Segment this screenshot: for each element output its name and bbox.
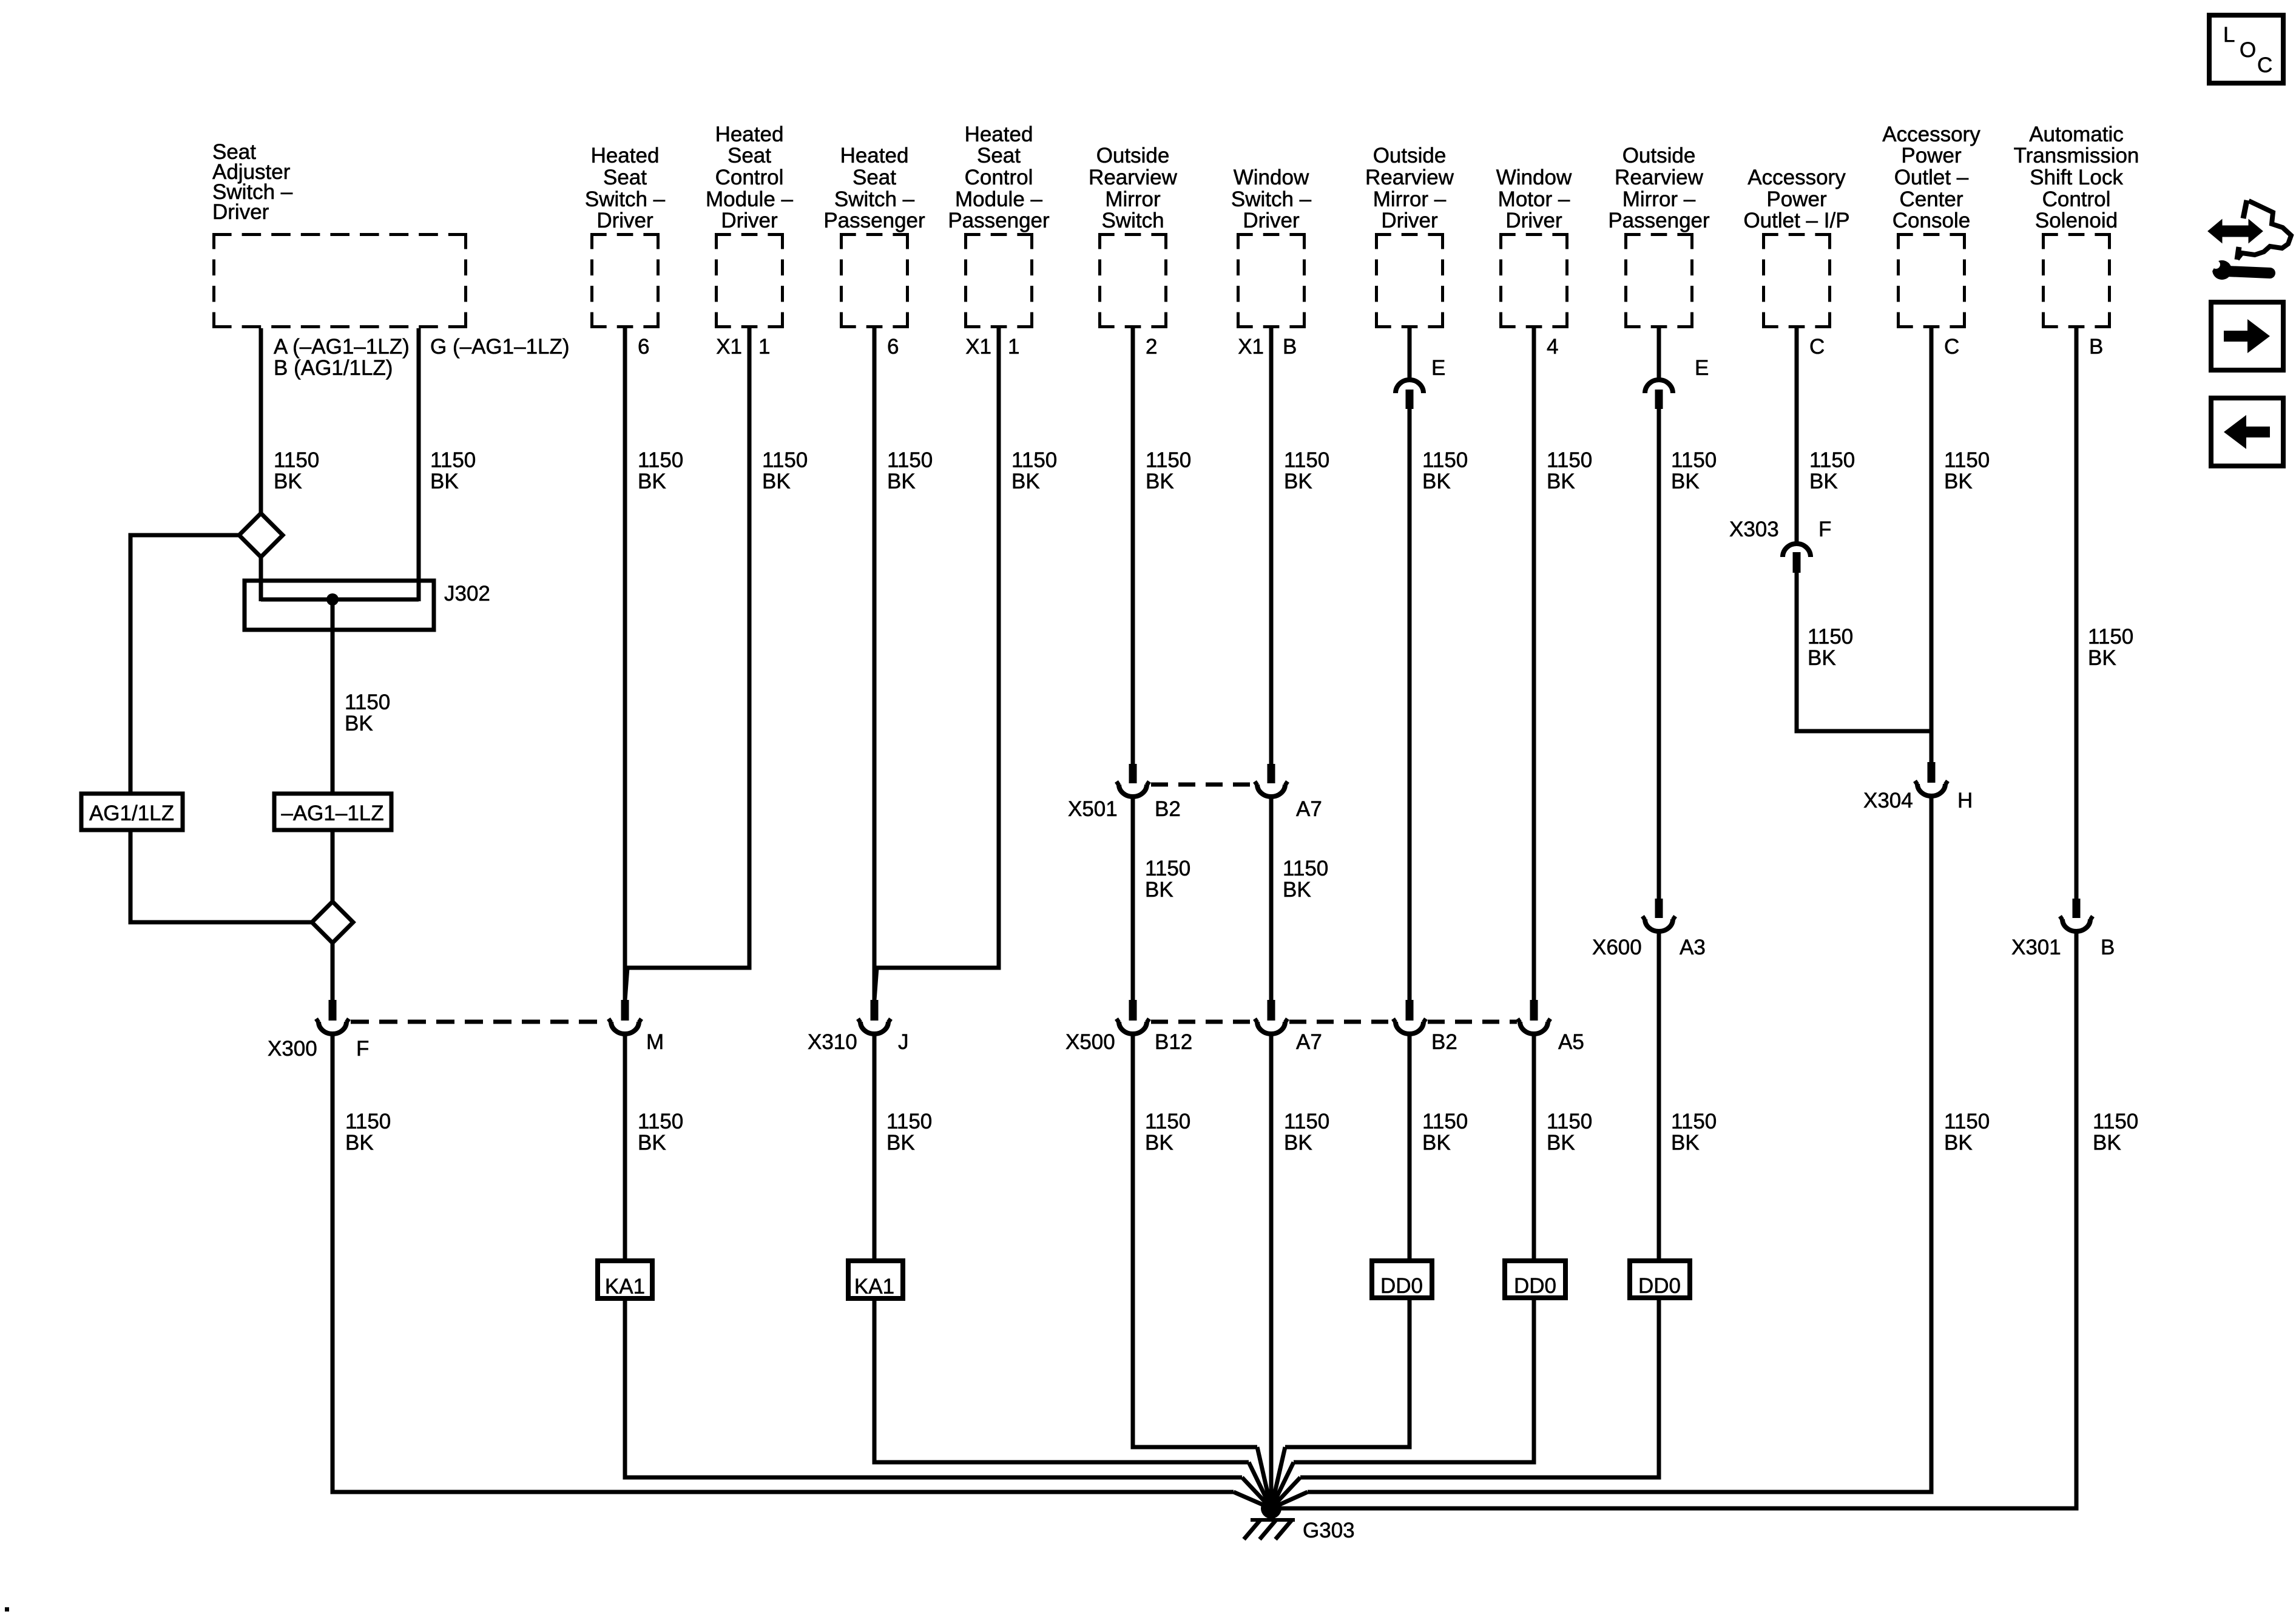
wire: KA1 down to ground bus level 3 xyxy=(625,1298,1242,1477)
svg-text:X303: X303 xyxy=(1729,518,1779,541)
splice pack J302 box xyxy=(245,581,434,630)
svg-text:BK: BK xyxy=(1011,470,1040,493)
connector X500 pin A7 (stub and cup) xyxy=(1268,1000,1275,1021)
svg-text:Outlet –: Outlet – xyxy=(1894,166,1969,189)
svg-text:Solenoid: Solenoid xyxy=(2035,209,2118,232)
wire: left branch from upper diamond to AG1/1LZ box xyxy=(130,535,239,794)
svg-text:Transmission: Transmission xyxy=(2014,144,2139,167)
svg-text:F: F xyxy=(1818,518,1831,541)
svg-text:BK: BK xyxy=(1547,470,1575,493)
eyelet terminal E (mirror passenger) xyxy=(1645,380,1673,393)
wire: pin G of seat adjuster switch down into J302 xyxy=(417,328,421,601)
label: Heated Seat Control Module - Driver title xyxy=(706,123,794,232)
svg-text:H: H xyxy=(1957,789,1973,812)
wire: X500 B12 down to ground bus level 1 xyxy=(1133,1033,1257,1447)
page artifact dot bottom left xyxy=(5,1607,9,1612)
svg-text:BK: BK xyxy=(638,470,666,493)
svg-text:1150: 1150 xyxy=(1944,1110,1990,1133)
wire label 1150 BK (mirror switch X501-X500) xyxy=(1145,857,1190,902)
back arrow box xyxy=(2211,398,2283,466)
svg-text:Control: Control xyxy=(965,166,1033,189)
svg-text:1150: 1150 xyxy=(1422,1110,1468,1133)
svg-text:Switch –: Switch – xyxy=(834,187,915,211)
wire: into G303 node (X301 branch) xyxy=(1271,1507,1295,1511)
junction dot inside J302 xyxy=(326,593,339,606)
svg-text:Control: Control xyxy=(715,166,784,189)
svg-text:Control: Control xyxy=(2042,187,2111,211)
svg-text:BK: BK xyxy=(345,712,373,735)
wire: Window Motor Driver pin 4 down to X500 A5 xyxy=(1532,328,1536,1002)
wire: X501 A7 down to X500 A7 xyxy=(1269,796,1274,1002)
svg-text:A3: A3 xyxy=(1680,936,1706,959)
wire label 1150 BK (A7 lower) xyxy=(1284,1110,1329,1155)
dashed connector tie line X501 B2 to A7 xyxy=(1151,783,1254,787)
svg-text:Heated: Heated xyxy=(965,123,1033,146)
svg-text:Seat: Seat xyxy=(853,166,896,189)
wire: M down to fuse KA1 xyxy=(623,1033,627,1261)
splice label DD0 (window motor) xyxy=(1505,1261,1565,1298)
svg-text:Power: Power xyxy=(1766,187,1827,211)
svg-text:X501: X501 xyxy=(1068,797,1118,821)
svg-text:X300: X300 xyxy=(268,1037,317,1061)
ground node G303 junction blob xyxy=(1261,1498,1281,1519)
svg-text:B2: B2 xyxy=(1431,1030,1457,1054)
svg-text:F: F xyxy=(356,1037,369,1061)
svg-text:Mirror –: Mirror – xyxy=(1622,187,1696,211)
svg-text:B2: B2 xyxy=(1155,797,1181,821)
svg-text:A7: A7 xyxy=(1296,797,1322,821)
svg-text:Passenger: Passenger xyxy=(823,209,925,232)
wire: DD0 down to ground bus level 2 (right side) xyxy=(1294,1298,1534,1462)
svg-text:B: B xyxy=(1283,335,1297,359)
svg-text:1: 1 xyxy=(1008,335,1019,359)
svg-text:X310: X310 xyxy=(808,1030,857,1054)
svg-text:B12: B12 xyxy=(1155,1030,1192,1054)
component box: Heated Seat Switch - Driver xyxy=(590,233,660,328)
label: Heated Seat Control Module - Passenger title xyxy=(948,123,1050,232)
svg-text:Switch: Switch xyxy=(1101,209,1164,232)
svg-text:1150: 1150 xyxy=(1284,1110,1329,1133)
svg-text:Console: Console xyxy=(1893,209,1970,232)
svg-text:BK: BK xyxy=(2088,646,2116,670)
svg-text:Switch –: Switch – xyxy=(1231,187,1312,211)
ground symbol hatch strokes xyxy=(1244,1519,1261,1539)
svg-text:Power: Power xyxy=(1901,144,1962,167)
svg-text:1150: 1150 xyxy=(1671,448,1717,472)
svg-text:1150: 1150 xyxy=(2088,625,2133,649)
svg-text:1150: 1150 xyxy=(345,1110,391,1133)
svg-text:1150: 1150 xyxy=(1809,448,1855,472)
svg-text:O: O xyxy=(2240,38,2256,62)
wire label 1150 BK (X304 lower) xyxy=(1944,1110,1990,1155)
label: Automatic Transmission Shift Lock Control Solenoid title xyxy=(2014,123,2139,232)
svg-text:X1: X1 xyxy=(1238,335,1264,359)
svg-text:Automatic: Automatic xyxy=(2029,123,2124,146)
wire: Window Switch Driver pin B down to X501 A7 xyxy=(1269,328,1274,766)
connector X303 pin F (cap and stub) xyxy=(1783,544,1811,557)
connector X310 pin J (stub and cup) xyxy=(871,1000,879,1021)
wire: bevel into G303 node (X310 branch) xyxy=(1249,1462,1271,1508)
svg-text:J: J xyxy=(898,1030,909,1054)
wire: lower diamond down to connector X300 xyxy=(331,943,335,1002)
wire: X303 F down then right to junction with center console wire xyxy=(1797,573,1931,731)
svg-text:1150: 1150 xyxy=(1011,448,1057,472)
svg-text:B (AG1/1LZ): B (AG1/1LZ) xyxy=(274,356,393,380)
connector M (stub and cup) xyxy=(621,1000,629,1021)
svg-text:Outside: Outside xyxy=(1622,144,1696,167)
svg-text:A7: A7 xyxy=(1296,1030,1322,1054)
wire label 1150 BK (A5 lower) xyxy=(1547,1110,1592,1155)
svg-text:Switch –: Switch – xyxy=(585,187,666,211)
connector X500 pin B12 (stub and cup) xyxy=(1129,1000,1137,1021)
wire: Heated Seat Switch Passenger pin 6 down to connector X310 xyxy=(873,328,877,1002)
svg-text:X1: X1 xyxy=(716,335,742,359)
wire: Outside Rearview Mirror Passenger down to eyelet E xyxy=(1657,328,1661,382)
svg-text:Driver: Driver xyxy=(1243,209,1300,232)
svg-text:BK: BK xyxy=(1145,1131,1173,1155)
svg-text:L: L xyxy=(2223,23,2235,47)
connector X500 pin B2 (stub and cup) xyxy=(1406,1000,1414,1021)
wire label 1150 BK (col 8 upper) xyxy=(1284,448,1329,493)
wire: bevel into G303 node (A5 branch) xyxy=(1271,1462,1294,1508)
svg-text:BK: BK xyxy=(345,1131,374,1155)
option box AG1/1LZ xyxy=(81,794,183,830)
svg-text:E: E xyxy=(1431,356,1445,380)
label: Heated Seat Switch - Passenger title xyxy=(823,144,925,232)
svg-text:DD0: DD0 xyxy=(1638,1274,1681,1298)
svg-text:BK: BK xyxy=(887,470,916,493)
component box: Window Motor - Driver xyxy=(1499,233,1568,328)
svg-text:1150: 1150 xyxy=(1145,1110,1190,1133)
harness direction icon (double arrow, outline, wrench) xyxy=(2207,200,2291,280)
svg-text:Accessory: Accessory xyxy=(1747,166,1846,189)
svg-text:Module –: Module – xyxy=(955,187,1043,211)
wire: Heated Seat Control Module Driver pin 1 down, jog left into M xyxy=(625,328,749,1000)
svg-text:Shift Lock: Shift Lock xyxy=(2030,166,2123,189)
LOC reference box xyxy=(2209,15,2283,83)
svg-text:B: B xyxy=(2101,936,2115,959)
svg-text:X1: X1 xyxy=(965,335,991,359)
wire: bevel into G303 node (A3 branch) xyxy=(1271,1477,1300,1508)
connector X501 pin A7 (stub and cup) xyxy=(1268,764,1275,783)
svg-text:Driver: Driver xyxy=(1505,209,1562,232)
label: Window Switch - Driver title xyxy=(1231,166,1312,232)
wire label 1150 BK (X300 lower) xyxy=(345,1110,391,1155)
svg-text:1150: 1150 xyxy=(1145,857,1190,880)
ground symbol G303 hatch bar xyxy=(1251,1518,1295,1522)
svg-text:KA1: KA1 xyxy=(605,1275,645,1298)
svg-text:BK: BK xyxy=(1422,470,1451,493)
wire: bevel into G303 node (B2 branch) xyxy=(1271,1447,1285,1508)
svg-text:1150: 1150 xyxy=(1284,448,1329,472)
wire: AG1/1LZ box down and right to lower diamond xyxy=(130,830,312,922)
wire label 1150 BK (M KA1) xyxy=(638,1110,683,1155)
svg-text:A (–AG1–1LZ): A (–AG1–1LZ) xyxy=(274,335,410,359)
svg-text:Window: Window xyxy=(1496,166,1572,189)
wire: X304 H down to ground bus level 4 (right side) xyxy=(1308,795,1931,1492)
wire label 1150 BK (col 11 upper) xyxy=(1671,448,1717,493)
svg-text:X301: X301 xyxy=(2011,936,2061,959)
svg-text:Heated: Heated xyxy=(840,144,909,167)
svg-text:BK: BK xyxy=(1944,1131,1973,1155)
svg-text:Passenger: Passenger xyxy=(1608,209,1710,232)
wire label 1150 BK (X303-X304 wire) xyxy=(1808,625,1853,670)
component box: Seat Adjuster Switch - Driver xyxy=(212,233,467,328)
svg-text:Center: Center xyxy=(1899,187,1963,211)
wire label 1150 BK (col 3 upper) xyxy=(638,448,683,493)
svg-text:1150: 1150 xyxy=(1422,448,1468,472)
wire: X501 B2 down to X500 B12 xyxy=(1131,796,1135,1002)
wire label 1150 BK (B12 lower) xyxy=(1145,1110,1190,1155)
svg-text:C: C xyxy=(1944,335,1959,359)
svg-text:1150: 1150 xyxy=(430,448,476,472)
wire label 1150 BK (col 5 upper) xyxy=(887,448,933,493)
connector X304 pin H (stub and cup) xyxy=(1928,762,1936,783)
svg-text:Outlet – I/P: Outlet – I/P xyxy=(1743,209,1849,232)
svg-text:1150: 1150 xyxy=(638,1110,683,1133)
wire label 1150 BK (B2 lower) xyxy=(1422,1110,1468,1155)
wire: diamond down into J302 xyxy=(259,556,263,601)
component box: Outside Rearview Mirror - Passenger xyxy=(1624,233,1693,328)
svg-text:Outside: Outside xyxy=(1096,144,1170,167)
wire: bevel into G303 node (M branch) xyxy=(1242,1477,1271,1508)
svg-text:Mirror: Mirror xyxy=(1105,187,1161,211)
svg-text:BK: BK xyxy=(638,1131,666,1155)
wire: X600 A3 down to splice DD0 xyxy=(1657,931,1661,1261)
svg-text:J302: J302 xyxy=(444,582,490,606)
svg-text:–AG1–1LZ: –AG1–1LZ xyxy=(281,802,383,825)
eyelet terminal E (mirror driver) xyxy=(1396,380,1423,393)
wire: internal splice bus inside J302 xyxy=(261,598,419,602)
svg-text:1150: 1150 xyxy=(1146,448,1191,472)
svg-text:BK: BK xyxy=(1146,470,1174,493)
wire: pin A/B of seat adjuster switch down to splice diamond xyxy=(259,328,263,514)
connector X300 pin F (stub and cup) xyxy=(329,1000,337,1021)
wire label 1150 BK (col 13 upper) xyxy=(1944,448,1990,493)
wire: X300 F down to ground bus level 4 xyxy=(333,1033,1234,1492)
wire label 1150 BK (col 6 upper) xyxy=(1011,448,1057,493)
label: Accessory Power Outlet - I/P title xyxy=(1743,166,1849,232)
wire: bevel into G303 node (X304 branch) xyxy=(1271,1492,1308,1508)
svg-text:A5: A5 xyxy=(1558,1030,1584,1054)
wire label 1150 BK (col 2 upper) xyxy=(430,448,476,493)
svg-text:Mirror –: Mirror – xyxy=(1373,187,1447,211)
svg-text:Heated: Heated xyxy=(591,144,660,167)
component box: Heated Seat Control Module - Passenger xyxy=(964,233,1033,328)
svg-text:G (–AG1–1LZ): G (–AG1–1LZ) xyxy=(430,335,570,359)
svg-text:BK: BK xyxy=(274,470,302,493)
svg-text:Module –: Module – xyxy=(706,187,794,211)
svg-text:Rearview: Rearview xyxy=(1365,166,1454,189)
svg-text:BK: BK xyxy=(1284,470,1312,493)
splice label DD0 (mirror driver) xyxy=(1372,1261,1432,1298)
component box: Heated Seat Switch - Passenger xyxy=(840,233,909,328)
svg-text:Heated: Heated xyxy=(715,123,784,146)
svg-text:DD0: DD0 xyxy=(1380,1274,1423,1298)
svg-text:Driver: Driver xyxy=(721,209,778,232)
svg-text:Accessory: Accessory xyxy=(1882,123,1980,146)
wire: X500 A5 down to splice DD0 xyxy=(1532,1033,1536,1261)
svg-text:BK: BK xyxy=(1809,470,1838,493)
svg-text:BK: BK xyxy=(2093,1131,2121,1155)
svg-text:1150: 1150 xyxy=(1671,1110,1717,1133)
svg-text:BK: BK xyxy=(1671,470,1700,493)
label: Outside Rearview Mirror Switch title xyxy=(1089,144,1178,232)
svg-text:BK: BK xyxy=(1671,1131,1700,1155)
label: Seat Adjuster Switch - Driver title xyxy=(212,140,293,224)
wire: Outside Rearview Mirror Driver down to eyelet E xyxy=(1408,328,1412,382)
wire: E down to X500 B2 xyxy=(1408,409,1412,1002)
wire label 1150 BK (col 12 upper) xyxy=(1809,448,1855,493)
svg-text:Seat: Seat xyxy=(728,144,771,167)
wire: bevel into G303 node (B12 branch) xyxy=(1257,1447,1271,1508)
label: Window Motor - Driver title xyxy=(1496,166,1572,232)
svg-text:DD0: DD0 xyxy=(1514,1274,1556,1298)
svg-text:1150: 1150 xyxy=(1944,448,1990,472)
svg-text:Driver: Driver xyxy=(1381,209,1438,232)
wire: X500 B2 down to splice DD0 xyxy=(1408,1033,1412,1261)
svg-text:Driver: Driver xyxy=(212,200,269,224)
fuse block label KA1 (passenger) xyxy=(848,1261,903,1298)
wire: Outside Rearview Mirror Switch pin 2 down to X501 xyxy=(1131,328,1135,766)
splice diamond (upper, AG1/1LZ take-out) xyxy=(239,513,283,557)
label: Heated Seat Switch - Driver title xyxy=(585,144,666,232)
component box: Accessory Power Outlet - Center Console xyxy=(1897,233,1966,328)
svg-text:6: 6 xyxy=(887,335,899,359)
svg-text:X500: X500 xyxy=(1065,1030,1115,1054)
component box: Outside Rearview Mirror Switch xyxy=(1098,233,1167,328)
wire label 1150 BK (col 4 upper) xyxy=(762,448,808,493)
svg-text:Seat: Seat xyxy=(977,144,1021,167)
svg-text:Window: Window xyxy=(1234,166,1309,189)
svg-text:BK: BK xyxy=(1145,878,1173,902)
wire: J302 splice down through -AG1-1LZ box to lower diamond xyxy=(331,599,335,794)
component box: Accessory Power Outlet - I/P xyxy=(1762,233,1831,328)
component box: Window Switch - Driver xyxy=(1237,233,1306,328)
wire label 1150 BK (J302 splice output) xyxy=(345,690,390,735)
wire: Accessory Power Outlet Center Console pin C down to junction xyxy=(1930,328,1934,731)
wire label 1150 BK (window switch X501-X500) xyxy=(1283,857,1328,902)
svg-text:Seat: Seat xyxy=(603,166,647,189)
svg-text:M: M xyxy=(646,1030,664,1054)
svg-text:BK: BK xyxy=(1547,1131,1575,1155)
wire: Heated Seat Control Module Passenger pin 1 down, jog left into X310 xyxy=(874,328,999,1000)
forward arrow box xyxy=(2211,302,2283,370)
svg-text:X600: X600 xyxy=(1592,936,1642,959)
component box: Outside Rearview Mirror - Driver xyxy=(1375,233,1444,328)
label: Outside Rearview Mirror - Passenger title xyxy=(1608,144,1710,232)
svg-text:BK: BK xyxy=(1944,470,1973,493)
wire: DD0 down to ground bus level 1 (right side) xyxy=(1285,1298,1410,1447)
svg-text:Passenger: Passenger xyxy=(948,209,1050,232)
svg-text:E: E xyxy=(1695,356,1709,380)
svg-text:BK: BK xyxy=(762,470,791,493)
svg-text:Outside: Outside xyxy=(1373,144,1447,167)
connector X301 pin B (stub and cup) xyxy=(2073,899,2081,918)
component box: Automatic Transmission Shift Lock Control Solenoid xyxy=(2042,233,2111,328)
svg-text:BK: BK xyxy=(1283,878,1311,902)
option box -AG1-1LZ xyxy=(274,794,391,830)
dashed connector tie line X500 A7-B2 xyxy=(1289,1020,1392,1024)
wire label 1150 BK (X310 KA1) xyxy=(886,1110,932,1155)
splice label DD0 (mirror passenger) xyxy=(1630,1261,1690,1298)
wire label 1150 BK (col 9 upper) xyxy=(1422,448,1468,493)
svg-text:1150: 1150 xyxy=(638,448,683,472)
svg-text:BK: BK xyxy=(886,1131,915,1155)
svg-text:B: B xyxy=(2089,335,2103,359)
svg-text:C: C xyxy=(1809,335,1825,359)
wire label 1150 BK (col 7 upper) xyxy=(1146,448,1191,493)
svg-text:KA1: KA1 xyxy=(854,1275,894,1298)
svg-text:1150: 1150 xyxy=(886,1110,932,1133)
svg-text:BK: BK xyxy=(1422,1131,1451,1155)
wire: Heated Seat Switch Driver pin 6 down to connector M xyxy=(623,328,627,1002)
wire: Shift Lock Solenoid pin B down to X301 xyxy=(2075,328,2079,901)
wire label 1150 BK (X600 DD0) xyxy=(1671,1110,1717,1155)
svg-text:2: 2 xyxy=(1146,335,1157,359)
fuse block label KA1 (driver) xyxy=(598,1261,652,1298)
wire: bevel into G303 node (X300 branch) xyxy=(1234,1492,1271,1508)
wire label 1150 BK (X301 lower) xyxy=(2093,1110,2138,1155)
connector X600 pin A3 (stub and cup) xyxy=(1655,899,1663,918)
svg-text:Rearview: Rearview xyxy=(1089,166,1178,189)
wire label 1150 BK (col 1 upper) xyxy=(274,448,319,493)
svg-text:BK: BK xyxy=(1284,1131,1312,1155)
svg-text:BK: BK xyxy=(430,470,459,493)
svg-text:1150: 1150 xyxy=(1283,857,1328,880)
svg-text:1: 1 xyxy=(758,335,770,359)
wire: X500 A7 straight down into G303 node xyxy=(1269,1033,1274,1508)
svg-text:Motor –: Motor – xyxy=(1498,187,1570,211)
svg-text:AG1/1LZ: AG1/1LZ xyxy=(89,802,174,825)
svg-text:1150: 1150 xyxy=(1808,625,1853,649)
wire: junction down to connector X304 xyxy=(1930,731,1934,764)
svg-text:BK: BK xyxy=(1808,646,1836,670)
dashed connector tie line X500 B12-A7 xyxy=(1151,1020,1254,1024)
wire: X310 down to fuse KA1 xyxy=(873,1033,877,1261)
svg-text:G303: G303 xyxy=(1303,1519,1355,1542)
svg-text:1150: 1150 xyxy=(1547,448,1592,472)
wire: E down to X600 A3 xyxy=(1657,409,1661,901)
svg-text:1150: 1150 xyxy=(274,448,319,472)
label: Accessory Power Outlet - Center Console title xyxy=(1882,123,1980,232)
svg-text:1150: 1150 xyxy=(887,448,933,472)
svg-text:1150: 1150 xyxy=(1547,1110,1592,1133)
wire: Accessory Power Outlet I/P pin C down to X303 xyxy=(1795,328,1799,545)
svg-text:1150: 1150 xyxy=(2093,1110,2138,1133)
wire: KA1 down to ground bus level 2 xyxy=(874,1298,1249,1462)
wire: DD0 down to ground bus level 3 (right side) xyxy=(1300,1298,1659,1477)
label: Outside Rearview Mirror - Driver title xyxy=(1365,144,1454,232)
dashed connector tie line X300 to M xyxy=(351,1020,607,1024)
svg-text:1150: 1150 xyxy=(345,690,390,714)
splice diamond (lower, rejoin) xyxy=(312,902,353,943)
svg-text:4: 4 xyxy=(1547,335,1558,359)
svg-text:X304: X304 xyxy=(1863,789,1913,812)
component box: Heated Seat Control Module - Driver xyxy=(715,233,784,328)
wire label 1150 BK (col 10 upper) xyxy=(1547,448,1592,493)
connector X500 pin A5 (stub and cup) xyxy=(1530,1000,1538,1021)
svg-text:6: 6 xyxy=(638,335,649,359)
wire: X301 B down to ground bus level 5 xyxy=(1295,931,2076,1508)
svg-text:Driver: Driver xyxy=(596,209,653,232)
connector X501 pin B2 (stub and cup) xyxy=(1129,764,1137,783)
svg-text:1150: 1150 xyxy=(762,448,808,472)
svg-text:C: C xyxy=(2257,53,2272,77)
svg-text:Rearview: Rearview xyxy=(1615,166,1704,189)
dashed connector tie line X500 B2-A5 xyxy=(1428,1020,1517,1024)
wire label 1150 BK (solenoid wire mid) xyxy=(2088,625,2133,670)
